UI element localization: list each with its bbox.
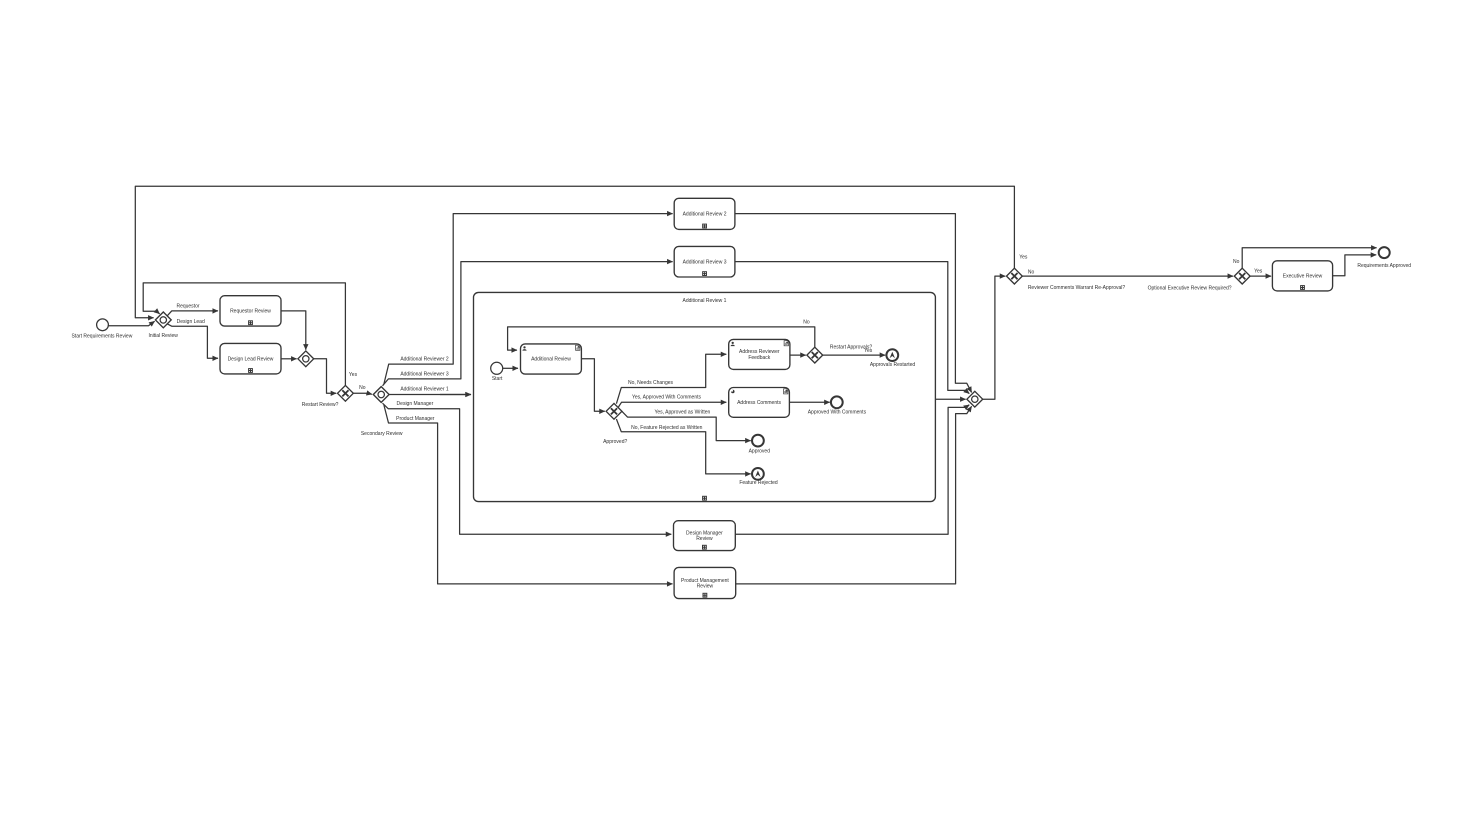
wire Address Reviewer Feedback to Restart Approvals gateway	[790, 354, 806, 356]
wire Optional Executive No to Requirements Approved	[1242, 248, 1376, 268]
wire big loop gateway G8 Yes back to Initial Review	[135, 186, 1014, 318]
svg-text:No, Feature Rejected as Writte: No, Feature Rejected as Written	[631, 425, 703, 431]
task Address Reviewer Feedback	[729, 339, 790, 369]
svg-text:Approvals Restarted: Approvals Restarted	[870, 362, 916, 368]
svg-text:Product Manager: Product Manager	[396, 416, 435, 422]
svg-text:Design Lead: Design Lead	[177, 319, 205, 325]
svg-text:Yes: Yes	[1254, 268, 1263, 274]
wire Restart Approvals Yes to Approvals Restarted end	[823, 354, 886, 356]
svg-text:Reviewer Comments Warrant Re-A: Reviewer Comments Warrant Re-Approval?	[1028, 285, 1126, 291]
svg-text:Additional Reviewer 3: Additional Reviewer 3	[400, 372, 449, 378]
wire Restart Review No to Secondary Review gateway	[353, 393, 372, 394]
event end Approvals Restarted	[886, 349, 898, 361]
wire Initial Review to Design Lead Review (Design Lead)	[167, 324, 218, 359]
wire Approved Yes With Comments (over)	[618, 402, 726, 407]
wire Additional Review 3 to merge gateway right	[735, 262, 969, 394]
svg-text:Requestor: Requestor	[176, 304, 199, 310]
svg-text:Start Requirements Review: Start Requirements Review	[71, 334, 132, 340]
wire merge gateway right to Reviewer Comments gateway	[983, 276, 1006, 399]
wire Restart Approvals No loop (over)	[508, 327, 815, 350]
task Requestor Review	[220, 296, 281, 326]
svg-text:No, Needs Changes: No, Needs Changes	[628, 380, 674, 386]
wire Additional Review task to Approved gateway	[581, 359, 604, 412]
svg-text:Design Lead Review: Design Lead Review	[228, 356, 274, 362]
task Additional Review 2	[674, 198, 735, 229]
wire Address Reviewer Feedback to Restart Approvals (over)	[790, 354, 806, 356]
gateway merge right (inclusive)	[967, 391, 983, 407]
svg-text:Start: Start	[492, 376, 503, 382]
svg-text:Review: Review	[697, 583, 714, 589]
svg-text:Feedback: Feedback	[748, 355, 770, 361]
svg-text:Restart Review?: Restart Review?	[302, 402, 339, 408]
wire Executive Review to Requirements Approved	[1333, 255, 1377, 276]
wire Secondary Review to Additional Review 2	[384, 214, 673, 384]
svg-text:Additional Review 3: Additional Review 3	[683, 259, 727, 265]
wire inner start to Additional Review task	[503, 367, 518, 369]
event end Approved	[752, 435, 764, 447]
wire inner start to Additional Review task (over)	[503, 367, 518, 369]
task Design Lead Review	[220, 343, 281, 374]
svg-text:No: No	[359, 385, 366, 391]
svg-text:Approved?: Approved?	[603, 439, 627, 445]
svg-text:Requirements Approved: Requirements Approved	[1357, 263, 1411, 269]
wire Approved Yes With Comments to Address Comments	[618, 402, 726, 407]
wire subprocess to merge gateway right	[935, 398, 965, 400]
task Address Comments	[729, 388, 790, 418]
event end Feature Rejected	[752, 468, 764, 480]
svg-text:Feature Rejected: Feature Rejected	[739, 480, 778, 486]
wire Approved No Needs Changes to Address Reviewer Feedback	[616, 354, 726, 403]
svg-text:Approved With Comments: Approved With Comments	[808, 410, 867, 416]
gateway Restart Approvals? (exclusive)	[807, 347, 823, 363]
event inner start	[491, 362, 503, 374]
svg-text:No: No	[1028, 269, 1035, 275]
task Additional Review (user task)	[521, 344, 582, 374]
gateway Reviewer Comments Warrant Re-Approval? (exclusive)	[1007, 268, 1023, 284]
wire Secondary Review to subprocess (Additional Reviewer 1)	[389, 394, 471, 396]
wire Approved No Needs Changes (over)	[616, 354, 726, 403]
event start Start Requirements Review	[97, 319, 109, 331]
wire Secondary Review to Product Management Review	[384, 405, 673, 584]
wire Approved No Feature Rejected to Feature Rejected end	[616, 419, 750, 474]
svg-text:Yes, Approved as Written: Yes, Approved as Written	[654, 410, 710, 416]
task Design Manager Review	[674, 521, 736, 551]
wire Design Lead Review to merge gateway	[281, 358, 297, 360]
wire Additional Review 2 to merge gateway right	[735, 214, 972, 393]
wire Secondary Review to Design Manager Review	[383, 403, 672, 534]
svg-text:Additional Review: Additional Review	[531, 357, 571, 363]
task Executive Review	[1272, 261, 1332, 291]
svg-text:Additional Reviewer 1: Additional Reviewer 1	[400, 386, 449, 392]
wire start event to Initial Review gateway	[109, 321, 155, 326]
task Additional Review 3	[674, 246, 735, 277]
svg-text:Review: Review	[696, 536, 713, 542]
gateway Secondary Review (inclusive)	[373, 387, 389, 403]
svg-text:Address Comments: Address Comments	[737, 400, 781, 406]
wire Approved No Feature Rejected (over)	[616, 419, 750, 474]
svg-text:Optional Executive Review Requ: Optional Executive Review Required?	[1148, 285, 1232, 291]
wire Product Management Review to merge gateway right	[736, 406, 972, 584]
wire Restart Approvals No loop to Additional Review task	[508, 327, 815, 350]
svg-text:Approved: Approved	[749, 449, 771, 455]
svg-text:Yes, Approved With Comments: Yes, Approved With Comments	[632, 395, 702, 401]
wire subprocess entry arrow (Additional Reviewer 1)	[440, 394, 471, 396]
event end Requirements Approved	[1379, 247, 1390, 258]
wire Reviewer Comments No to Optional Executive gateway	[1022, 275, 1233, 277]
svg-text:Yes: Yes	[1019, 255, 1028, 261]
svg-text:Yes: Yes	[864, 348, 873, 354]
wire Restart Approvals Yes to Approvals Restarted (over)	[823, 354, 886, 356]
gateway Restart Review? (exclusive)	[338, 385, 354, 401]
wire restart review Yes loop back to Initial Review	[143, 283, 345, 385]
wire Approved Yes as Written to Approved end	[622, 411, 751, 440]
wire Design Manager Review to merge gateway right	[735, 405, 969, 534]
event end Approved With Comments	[831, 396, 843, 408]
gateway merge after reviews (inclusive)	[298, 351, 314, 367]
svg-text:Additional Review 2: Additional Review 2	[683, 211, 727, 217]
svg-text:Additional Review 1: Additional Review 1	[683, 298, 727, 304]
wire Address Comments to Approved With Comments (over)	[789, 401, 829, 403]
gateway Optional Executive Review Required? (exclusive)	[1234, 268, 1250, 284]
svg-text:Yes: Yes	[349, 372, 358, 378]
wire Optional Executive Yes to Executive Review	[1250, 275, 1271, 277]
svg-text:Executive Review: Executive Review	[1283, 273, 1323, 279]
wire Secondary Review to Additional Review 3	[383, 262, 673, 386]
svg-text:Secondary Review: Secondary Review	[361, 431, 403, 437]
svg-text:No: No	[803, 319, 810, 325]
wire Address Comments to Approved With Comments end	[789, 401, 829, 403]
svg-text:Requestor Review: Requestor Review	[230, 309, 271, 315]
wire Requestor Review to merge gateway	[281, 311, 306, 350]
gateway Initial Review (inclusive)	[155, 312, 171, 328]
svg-text:Additional Reviewer 2: Additional Reviewer 2	[400, 356, 449, 362]
svg-text:No: No	[1233, 259, 1240, 265]
svg-text:Initial Review: Initial Review	[148, 333, 178, 339]
gateway Approved? (exclusive)	[606, 403, 622, 419]
subprocess Additional Review 1 container	[474, 292, 936, 501]
wire Approved Yes as Written (over)	[622, 411, 751, 440]
wire Additional Review task to Approved gateway (over)	[581, 359, 604, 412]
svg-text:Design Manager: Design Manager	[397, 401, 434, 407]
wire Initial Review to Requestor Review (Requestor)	[167, 311, 218, 316]
wire merge gateway to Restart Review gateway	[314, 359, 337, 394]
task Product Management Review	[674, 567, 736, 598]
